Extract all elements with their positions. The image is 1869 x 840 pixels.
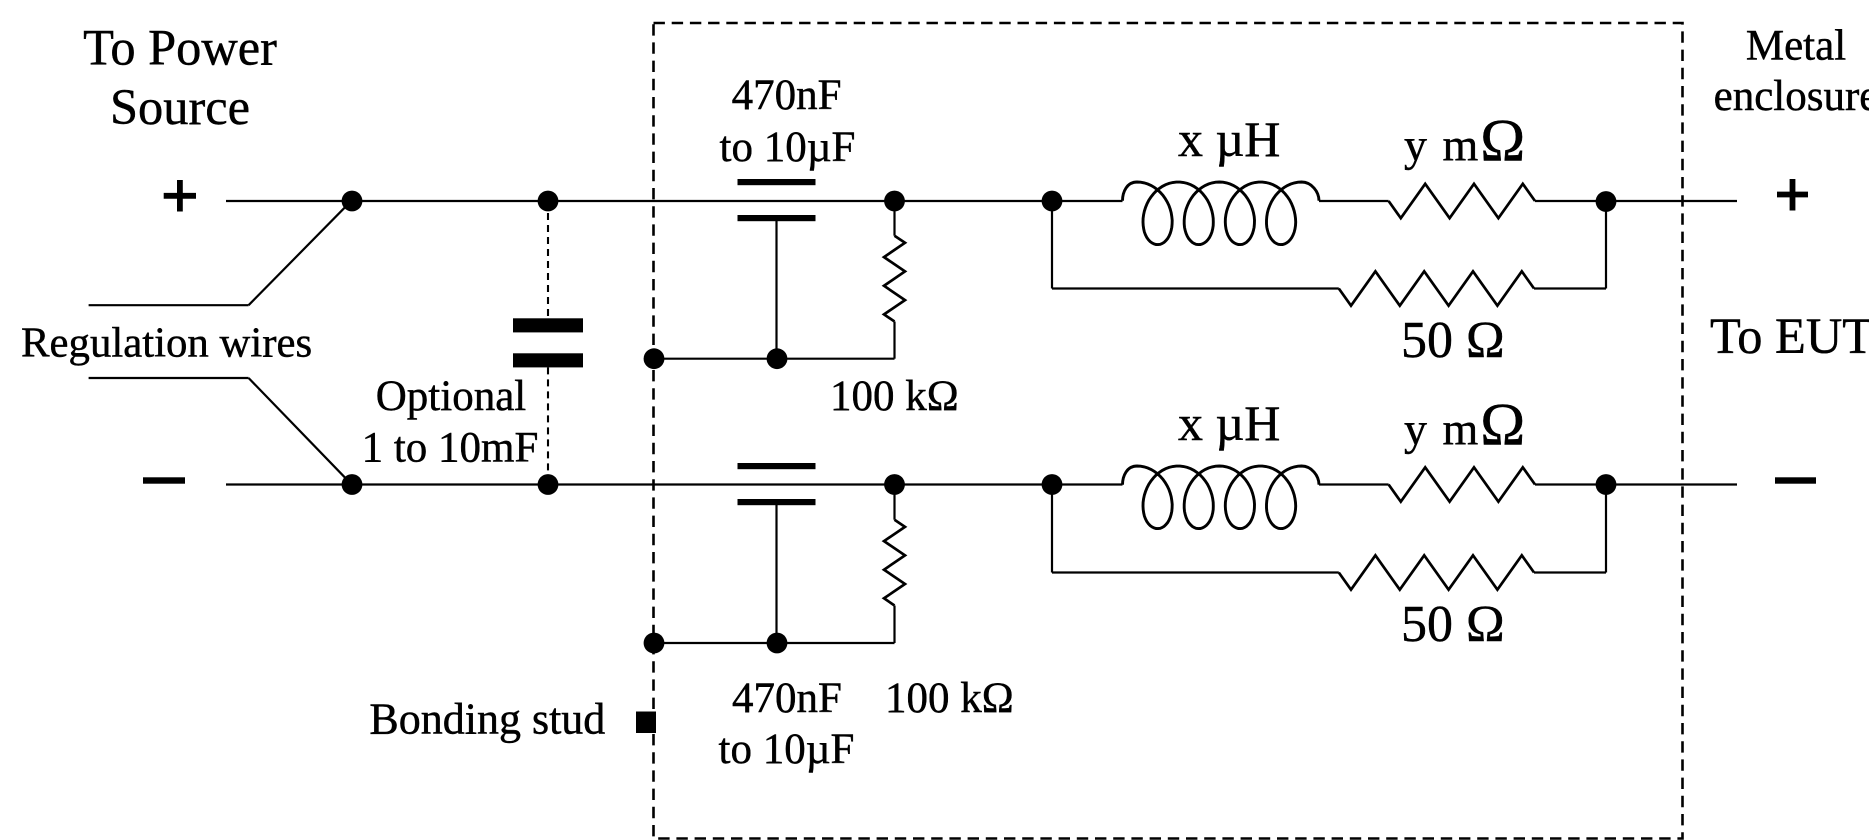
wire top line left — [226, 200, 1123, 202]
inductor L1 top — [1123, 182, 1320, 245]
svg-text:50 Ω: 50 Ω — [1401, 596, 1505, 653]
svg-text:Source: Source — [110, 79, 250, 135]
regulation wire lower horizontal — [89, 377, 249, 379]
node top wire / optional cap — [538, 191, 559, 212]
bonding stud square — [636, 712, 656, 734]
wire bottom line left — [226, 483, 1123, 485]
capacitor C1 plate upper — [738, 179, 816, 185]
resistor y mOhm top — [1389, 184, 1535, 218]
capacitor C1 plate lower — [738, 215, 816, 221]
svg-text:to 10µF: to 10µF — [720, 124, 856, 171]
resistor 100k bottom lead lower — [893, 606, 895, 644]
node bottom bus / cap stem — [767, 633, 788, 654]
50 ohm branch top: right vertical — [1605, 201, 1607, 289]
capacitor C2 plate lower — [738, 499, 816, 505]
plus terminal right — [1777, 179, 1808, 211]
svg-text:Metal: Metal — [1746, 22, 1846, 69]
wire top line to EUT — [1535, 200, 1737, 202]
node bottom wire / output junction — [1596, 474, 1617, 495]
resistor 100k bottom — [884, 520, 905, 606]
svg-text:470nF: 470nF — [732, 72, 842, 119]
capacitor C1 stem — [775, 221, 777, 359]
resistor 50 ohm bottom — [1339, 555, 1534, 589]
plus terminal left — [164, 180, 196, 212]
50 ohm branch top: right horizontal — [1534, 287, 1606, 289]
node top wire / output junction — [1596, 191, 1617, 212]
svg-text:enclosure: enclosure — [1714, 73, 1869, 120]
label Metal enclosure — [1714, 22, 1869, 120]
minus terminal right — [1775, 477, 1816, 483]
node top bus / cap stem — [767, 348, 788, 369]
50 ohm branch bottom: left horizontal — [1052, 571, 1339, 573]
svg-text:To EUT: To EUT — [1710, 308, 1869, 364]
inductor L2 bottom — [1123, 466, 1320, 529]
svg-text:1 to 10mF: 1 to 10mF — [362, 425, 539, 472]
regulation wire upper horizontal — [89, 304, 249, 306]
svg-text:50 Ω: 50 Ω — [1401, 312, 1505, 369]
resistor 100k top lead lower — [893, 322, 895, 359]
node top wire / 100k — [884, 191, 905, 212]
node top bus / enclosure — [644, 348, 665, 369]
optional capacitor dashed link lower — [547, 367, 549, 484]
50 ohm branch bottom: right vertical — [1605, 485, 1607, 573]
svg-text:to 10µF: to 10µF — [719, 726, 855, 773]
node bottom wire / optional cap — [538, 474, 559, 495]
optional capacitor plate 2 — [513, 353, 583, 367]
svg-text:Regulation wires: Regulation wires — [21, 320, 312, 367]
node bottom bus / enclosure — [644, 633, 665, 654]
svg-text:100 kΩ: 100 kΩ — [830, 373, 959, 420]
wire top line right of inductor — [1319, 200, 1389, 202]
wire bottom line right of inductor — [1319, 483, 1389, 485]
resistor 50 ohm top — [1339, 271, 1534, 305]
wire bottom line to EUT — [1535, 483, 1737, 485]
svg-text:To Power: To Power — [83, 20, 277, 76]
svg-text:100 kΩ: 100 kΩ — [885, 675, 1014, 722]
regulation wire lower diagonal — [249, 378, 352, 485]
50 ohm branch bottom: right horizontal — [1534, 571, 1606, 573]
capacitor C2 plate upper — [738, 463, 816, 469]
svg-text:Bonding stud: Bonding stud — [369, 695, 605, 744]
ground bus bottom — [654, 642, 895, 644]
node bottom wire / 50 ohm branch — [1042, 474, 1063, 495]
minus terminal left — [143, 477, 185, 483]
node top wire / 50 ohm branch — [1042, 191, 1063, 212]
node bottom wire / regulation junction — [342, 474, 363, 495]
50 ohm branch top: left horizontal — [1052, 287, 1339, 289]
resistor 100k bottom lead upper — [893, 485, 895, 520]
ground bus top — [654, 358, 895, 360]
metal enclosure dashed border — [654, 23, 1683, 839]
resistor 100k top — [884, 236, 905, 322]
resistor y mOhm bottom — [1389, 467, 1535, 501]
label To Power Source — [83, 20, 277, 136]
capacitor C2 stem — [775, 505, 777, 643]
node bottom wire / 100k — [884, 474, 905, 495]
50 ohm branch top: left vertical — [1051, 201, 1053, 289]
regulation wire upper diagonal — [249, 200, 352, 305]
resistor 100k top lead upper — [893, 201, 895, 236]
node top wire / regulation junction — [342, 191, 363, 212]
optional capacitor dashed link upper — [547, 201, 549, 318]
50 ohm branch bottom: left vertical — [1051, 485, 1053, 573]
svg-text:x µH: x µH — [1178, 395, 1280, 451]
svg-text:Optional: Optional — [376, 373, 527, 420]
svg-text:x µH: x µH — [1178, 111, 1280, 167]
svg-text:470nF: 470nF — [732, 675, 842, 722]
optional capacitor plate 1 — [513, 318, 583, 332]
